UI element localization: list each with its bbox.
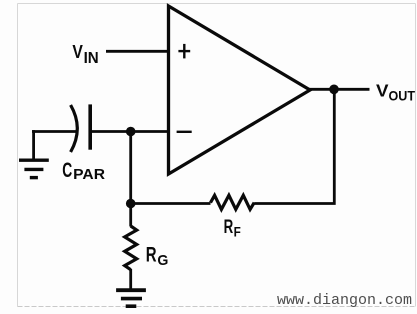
ground at RG [116, 290, 146, 306]
net label VOUT [376, 81, 416, 104]
wire RG to ground [129, 269, 132, 289]
svg-text:V: V [72, 41, 83, 62]
wire node B down to RG [129, 204, 132, 227]
svg-text:R: R [224, 216, 234, 238]
svg-text:F: F [234, 224, 242, 240]
svg-text:R: R [146, 242, 157, 266]
wire CPAR to - input [90, 130, 169, 133]
wire RF to output node [254, 89, 334, 203]
ground at CPAR [19, 160, 49, 177]
wire opamp output to VOUT [308, 88, 370, 91]
resistor RG [125, 226, 137, 270]
svg-text:IN: IN [84, 50, 99, 67]
svg-text:C: C [62, 158, 72, 182]
wire left ground to CPAR [32, 130, 77, 159]
op-amp U1 [169, 6, 311, 174]
node B junction dot at feedback tap [126, 199, 136, 209]
value label CPAR [62, 158, 105, 183]
value label RF [224, 216, 242, 240]
wire node B to RF [131, 202, 211, 205]
svg-text:G: G [157, 252, 168, 269]
svg-text:PAR: PAR [73, 167, 105, 183]
value label RG [146, 242, 169, 269]
node A junction dot at inverting input [126, 127, 136, 137]
resistor RF [211, 195, 255, 209]
wire node A down to feedback node B [129, 132, 132, 204]
svg-text:V: V [376, 81, 389, 101]
node VOUT junction dot [329, 85, 339, 95]
svg-text:www.diangon.com: www.diangon.com [277, 292, 412, 309]
wire VIN to + input [106, 50, 169, 53]
net label VIN [72, 41, 98, 67]
svg-text:OUT: OUT [389, 89, 416, 104]
capacitor CPAR [71, 104, 91, 152]
